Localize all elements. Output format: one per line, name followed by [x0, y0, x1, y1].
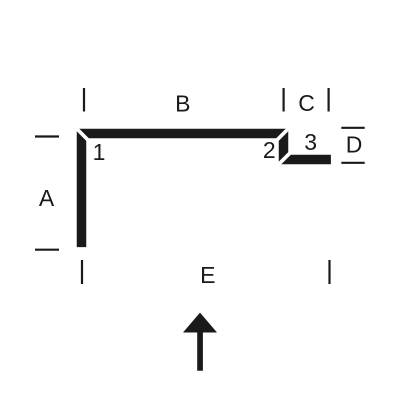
tick top middle (B end / C start)	[283, 88, 285, 112]
view direction arrow	[183, 313, 217, 371]
svg-text:A: A	[39, 185, 55, 211]
tick left upper (A start)	[35, 135, 59, 137]
tick left lower (A end)	[35, 249, 59, 251]
svg-text:1: 1	[93, 139, 106, 165]
svg-text:2: 2	[263, 137, 276, 163]
svg-text:D: D	[346, 132, 363, 158]
svg-text:C: C	[298, 90, 315, 116]
svg-text:3: 3	[304, 129, 317, 155]
fold line corner 3	[275, 151, 292, 168]
fold line corner 2	[275, 125, 292, 142]
svg-text:B: B	[175, 91, 190, 117]
profile polyline (segments A,B,step,D)	[82, 134, 331, 248]
tick bottom left (E start)	[81, 260, 83, 284]
tick top right (C end)	[328, 88, 330, 112]
tick right lower (D end)	[341, 162, 364, 164]
tick bottom right (E end)	[328, 260, 330, 284]
tick top left (B start)	[83, 88, 85, 112]
svg-text:E: E	[200, 262, 215, 288]
tick right upper (D start)	[341, 127, 364, 129]
fold line corner 1	[73, 125, 90, 142]
